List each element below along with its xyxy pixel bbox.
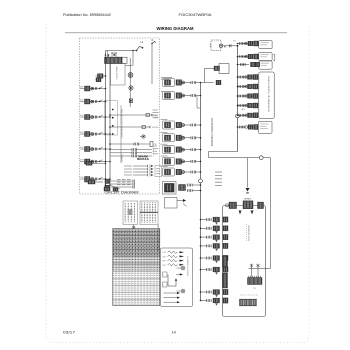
svg-text:XFMR: XFMR	[244, 199, 252, 201]
junction ladder dots	[112, 109, 114, 111]
lamp L5 legend	[181, 266, 185, 270]
relay K1 double-line-break	[105, 57, 123, 64]
wire L1 feed	[106, 50, 137, 52]
svg-text:N: N	[152, 39, 154, 42]
svg-text:CLOCK/TIMER: CLOCK/TIMER	[116, 66, 118, 80]
lamp L3 circle	[129, 86, 133, 90]
capacitor C2	[257, 267, 259, 278]
board edge tall block B	[223, 273, 228, 288]
svg-text:P3: P3	[253, 288, 255, 290]
ignitor IG3 left front	[238, 64, 250, 66]
junction bus B1 top	[105, 54, 107, 56]
board pin row PR4	[201, 245, 207, 247]
connector pair CP8 main harness	[163, 182, 177, 195]
lamp L2 stub	[96, 78, 101, 82]
svg-text:DSI BOARD: DSI BOARD	[247, 224, 250, 241]
wire node to board	[263, 157, 270, 159]
svg-text:SURF: SURF	[80, 147, 84, 149]
spark electrode SE3 row	[238, 95, 246, 97]
connector CP9 ground strap	[165, 198, 178, 209]
svg-text:03/17: 03/17	[63, 331, 75, 335]
ground bottom cluster	[105, 180, 110, 184]
lamp switch S3	[98, 74, 104, 79]
svg-text:SW: SW	[162, 265, 166, 267]
wire color chart grid	[113, 229, 160, 306]
electrode wire rows	[124, 165, 132, 167]
spark electrode SE2 row	[238, 86, 246, 88]
svg-text:SPARK: SPARK	[120, 153, 123, 162]
svg-text:SURF: SURF	[80, 132, 84, 134]
arrow top pin 1	[239, 211, 242, 215]
label above CP2	[161, 91, 170, 93]
bus main vertical harness	[200, 83, 202, 301]
connector CN6 row	[110, 152, 132, 154]
spark electrode SE4 row	[238, 105, 246, 107]
svg-text:BROIL: BROIL	[80, 99, 84, 101]
arrow top pin 2	[251, 211, 254, 215]
svg-text:SURF: SURF	[80, 115, 84, 117]
spark electrode SE1 row	[238, 76, 246, 78]
mini table wire gauge	[140, 201, 158, 225]
svg-text:SURFACE IGNITORS: SURFACE IGNITORS	[268, 75, 271, 112]
wire legend U-loop	[168, 275, 176, 287]
junction node J2 circle	[259, 156, 263, 160]
wire color chart entries	[113, 230, 115, 257]
switch SW1 door	[137, 47, 143, 51]
connector CN13 between	[132, 226, 135, 229]
svg-text:P2: P2	[234, 41, 236, 43]
board edge tall block A	[223, 256, 228, 267]
wire electrode vertical tie	[149, 165, 151, 177]
svg-text:14: 14	[172, 331, 176, 335]
svg-text:Publication No. 5995654442: Publication No. 5995654442	[63, 13, 111, 17]
connector pair CP7	[161, 166, 168, 168]
svg-text:SURF: SURF	[80, 159, 84, 161]
connector CN10 top left	[229, 202, 237, 209]
connector CN9 square	[129, 99, 132, 102]
board pin row PR1	[201, 219, 207, 221]
control board U1 outline	[223, 206, 266, 317]
bracket clip right	[273, 54, 275, 56]
electrode E1 drop	[247, 158, 249, 188]
connector pair CP1	[163, 79, 175, 87]
svg-text:J: J	[163, 285, 164, 287]
connector CN7 row	[110, 155, 132, 157]
wire oven light branch	[96, 75, 106, 77]
svg-text:SW: SW	[162, 252, 166, 254]
node ladder frame	[104, 101, 117, 136]
svg-text:SW: SW	[162, 261, 166, 263]
bus B1 vertical	[105, 51, 107, 186]
bus B2 vertical	[109, 64, 111, 186]
svg-text:OVEN: OVEN	[80, 177, 84, 179]
svg-text:WIRING DIAGRAM: WIRING DIAGRAM	[157, 26, 195, 31]
ground bottom cluster	[104, 187, 110, 191]
connector pair CP2	[163, 92, 175, 100]
connector CN4 row	[110, 143, 134, 145]
valve V1 second contact	[84, 163, 95, 165]
board pin row PR8	[201, 300, 207, 302]
terminal block TB1	[240, 294, 258, 296]
svg-text:J: J	[163, 275, 164, 277]
surface ignitor group box	[259, 72, 274, 119]
resistor R2 row	[110, 126, 140, 128]
legend enclosure	[161, 248, 193, 307]
note text block	[215, 171, 222, 173]
board pin row PR5	[201, 257, 207, 259]
page die-cut dashed border bottom	[46, 336, 309, 343]
resistor R1 row	[110, 114, 144, 116]
wire relay risers	[107, 51, 109, 58]
valve V2 second contact	[84, 181, 103, 183]
capacitor C1	[251, 267, 253, 278]
relay K4 legend	[163, 282, 168, 287]
circuit diagram dashed enclosure	[80, 38, 160, 194]
wire plug to bus	[223, 45, 238, 47]
ignitor IG4 oven	[238, 126, 246, 128]
connector pair CP6	[161, 155, 168, 157]
label above CP1	[161, 77, 172, 79]
wire motor drop	[129, 58, 131, 107]
svg-text:IGNITOR SWITCH: IGNITOR SWITCH	[188, 255, 190, 276]
svg-text:N: N	[224, 46, 226, 48]
board pin row PR7	[201, 291, 207, 293]
junction plug riser	[204, 68, 206, 82]
svg-text:SURFACE IGNITOR SW: SURFACE IGNITOR SW	[120, 109, 123, 138]
thermostat TH1	[216, 80, 221, 85]
connector CN5 row	[110, 149, 132, 151]
plug P1 power cord	[211, 40, 221, 51]
header rule	[65, 32, 287, 34]
legend switch rows	[168, 251, 178, 253]
junction node J3 circle	[236, 114, 240, 118]
board pin row PR2	[201, 227, 207, 229]
label stack right 2	[153, 145, 158, 147]
svg-text:40: 40	[242, 109, 247, 111]
svg-text:FGIC3047WBF0A: FGIC3047WBF0A	[179, 13, 213, 17]
connector CN12 board	[248, 278, 263, 285]
lamp L4 indicator	[142, 135, 145, 138]
lamp L6 legend	[181, 289, 185, 293]
label stack right	[153, 109, 158, 111]
svg-text:BAKE: BAKE	[80, 85, 84, 88]
notes box list	[123, 201, 138, 225]
board pin row PR3	[201, 236, 207, 238]
svg-text:L1: L1	[141, 40, 144, 44]
motor M1 circle	[128, 73, 133, 78]
wire CP2 riser	[196, 96, 198, 109]
relay box K2	[219, 64, 229, 74]
svg-text:MODULE: MODULE	[137, 158, 149, 161]
relay K3 legend	[163, 272, 168, 277]
ignitor IG2 left rear	[238, 56, 247, 58]
svg-text:WIRING HARNESS: WIRING HARNESS	[211, 118, 214, 146]
net label board inner	[246, 224, 248, 242]
svg-text:SW: SW	[162, 256, 166, 258]
junction node J1 circle	[199, 179, 203, 183]
wire mid riser	[120, 105, 122, 163]
connector pair CP3	[161, 119, 168, 121]
svg-text:CIRCUIT DIAGRAM: CIRCUIT DIAGRAM	[105, 191, 139, 195]
wire bus jog to node	[209, 151, 238, 153]
svg-text:C: C	[153, 156, 155, 158]
wire top jumper	[132, 51, 134, 66]
svg-text:IGN SW: IGN SW	[152, 127, 158, 129]
switch SW2 neutral	[152, 42, 156, 44]
wire neutral drop	[151, 44, 153, 85]
ignitor IG1 right rear	[238, 43, 247, 45]
connector pair CP5	[161, 143, 168, 145]
connector CN11 top right	[258, 202, 264, 209]
spark electrode SE5 row	[238, 114, 246, 116]
page die-cut dashed border left	[45, 24, 47, 336]
transformer T1	[243, 201, 253, 209]
connector pair CP4	[161, 131, 168, 133]
wire ladder rungs	[106, 116, 111, 118]
board pin row PR6	[201, 269, 207, 271]
timer TOD1 box	[111, 64, 126, 86]
page die-cut dashed border right	[308, 27, 310, 336]
wire legend stub	[176, 274, 181, 276]
legend arrow rows	[164, 292, 178, 294]
bracket electrode group	[155, 166, 162, 177]
bus right vertical	[237, 46, 239, 152]
